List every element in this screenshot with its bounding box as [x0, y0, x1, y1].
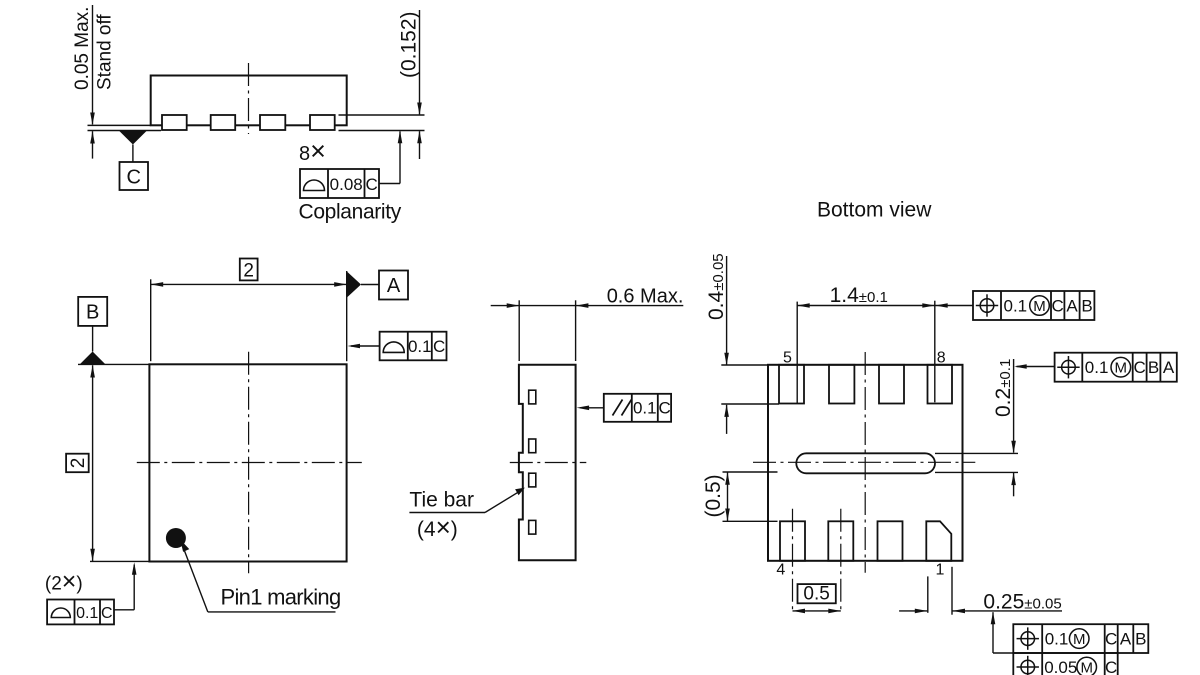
svg-text:0.1: 0.1	[1045, 630, 1069, 649]
seating plane lower line (datum C plane)	[88, 130, 162, 132]
svg-text:C: C	[1105, 658, 1117, 675]
0.6 Max dimension line with arrows	[491, 303, 684, 308]
svg-text:(0.152): (0.152)	[398, 11, 421, 78]
svg-text:B: B	[86, 301, 99, 323]
pin1 marking leader	[180, 540, 335, 612]
pin1 marking dot	[166, 528, 186, 548]
svg-text:B: B	[1081, 297, 1092, 316]
datum B triangle	[80, 352, 105, 365]
0.2 dimension line with arrows	[1011, 359, 1016, 496]
svg-text:C: C	[1105, 630, 1117, 649]
top view vertical centerline	[248, 352, 250, 574]
pad 5 (bottom view top row)	[779, 365, 804, 404]
svg-text:Tie bar: Tie bar	[409, 489, 474, 512]
svg-text:8: 8	[937, 350, 946, 367]
datum B leader	[92, 326, 94, 352]
tie bar leader with arrow	[409, 488, 525, 513]
0.6 Max dimension extension lines	[519, 300, 575, 361]
svg-text:0.1: 0.1	[1004, 297, 1028, 316]
top view horizontal centerline	[137, 462, 362, 464]
tie bar cross-section 1	[529, 390, 536, 404]
svg-text:0.1: 0.1	[1085, 358, 1109, 377]
profile frame bottom-left	[47, 600, 114, 625]
dimension (0.152) line with arrows	[417, 10, 422, 159]
top view package body square	[149, 364, 346, 561]
0.25 dimension extension lines	[928, 567, 952, 615]
svg-text:C: C	[1052, 297, 1064, 316]
pad 4 centerline	[792, 509, 794, 613]
lead pad 1 (side view)	[162, 115, 187, 130]
svg-text:2: 2	[243, 261, 254, 282]
exposed slot rounded rectangle	[796, 453, 935, 473]
svg-text:0.6 Max.: 0.6 Max.	[607, 286, 684, 308]
tie bar cross-section 4	[529, 520, 536, 534]
svg-text:Coplanarity: Coplanarity	[299, 201, 402, 224]
horizontal dimension 2 line with arrows	[151, 282, 347, 287]
svg-text:M: M	[1033, 298, 1046, 315]
0.25 dimension line with arrows	[899, 609, 1062, 614]
svg-text:0.05 Max.: 0.05 Max.	[72, 7, 93, 90]
extension line top edge extended left	[78, 363, 149, 365]
pad 3 (bottom view bottom row)	[828, 521, 853, 561]
leader arrow from frame CBA to 0.2 dimension	[1014, 364, 1054, 369]
boxed dimension 2 (left, rotated)	[66, 454, 89, 473]
lead pad 3 (side view)	[260, 115, 285, 130]
vertical dimension 2 line with arrows	[90, 365, 95, 561]
pad 7 (bottom view top row)	[879, 365, 904, 404]
pad 1 with chamfer (bottom view bottom row)	[926, 521, 951, 561]
svg-text:M: M	[1073, 631, 1086, 648]
coplanarity feature control frame	[300, 169, 379, 198]
svg-text:C: C	[101, 605, 113, 622]
boxed dimension 2 (top)	[240, 259, 258, 282]
position tolerance frame 0.1 M C B A	[1055, 353, 1177, 382]
svg-text:Pin1 marking: Pin1 marking	[221, 585, 341, 610]
datum C box	[120, 162, 149, 190]
pad 4 (bottom view bottom row)	[780, 521, 805, 561]
tie bar cross-section 2	[529, 439, 536, 453]
extension line right / datum A extension	[346, 271, 348, 361]
0.4 dimension extension lines	[721, 365, 779, 404]
profile frame right of top view	[380, 332, 447, 361]
svg-text:A: A	[1163, 358, 1175, 377]
0.2 dimension extension lines	[935, 453, 1018, 472]
position tolerance frame 0.1 M C A B (bottom right)	[1013, 624, 1148, 653]
side view outline with tie-bar steps (middle view)	[519, 365, 576, 560]
svg-text:B: B	[1148, 358, 1159, 377]
svg-text:0.5: 0.5	[803, 584, 829, 605]
extension line pad top right	[339, 114, 425, 116]
svg-text:0.1: 0.1	[408, 337, 432, 356]
pad 2 (bottom view bottom row)	[878, 521, 903, 561]
datum B box	[78, 297, 107, 326]
svg-text:0.1: 0.1	[76, 605, 98, 622]
leader arrow from parallelism frame to right edge	[577, 406, 604, 411]
0.5 pitch dimension line with arrows	[793, 609, 841, 614]
leader from 0.25 dimension to stacked frames	[991, 612, 1014, 653]
svg-text:(0.5): (0.5)	[702, 474, 725, 517]
svg-text:C: C	[126, 167, 140, 189]
1.4 dimension extension lines	[797, 301, 935, 404]
(0.5) dimension line with arrows	[725, 472, 730, 521]
middle view horizontal centerline	[510, 462, 587, 464]
0.4 dimension line with arrows	[724, 256, 729, 434]
leader arrow from profile frame to right edge	[348, 344, 380, 349]
datum A triangle	[347, 272, 379, 298]
position tolerance frame 0.05 M C (bottom right)	[1013, 653, 1117, 675]
tie bar cross-section 3	[529, 473, 536, 487]
svg-text:A: A	[387, 275, 401, 297]
svg-text:Stand off: Stand off	[95, 14, 116, 90]
pad 6 (bottom view top row)	[829, 365, 854, 404]
svg-text:C: C	[433, 337, 445, 356]
svg-text:M: M	[1115, 359, 1128, 376]
stand-off dimension line with arrows	[90, 5, 95, 159]
svg-text:0.1: 0.1	[633, 399, 657, 418]
bottom view horizontal centerline	[753, 461, 975, 463]
lead pad 2 (side view)	[211, 115, 236, 130]
svg-text:M: M	[1080, 659, 1093, 675]
svg-text:B: B	[1135, 630, 1146, 649]
svg-text:1: 1	[936, 562, 945, 579]
datum A box	[379, 271, 408, 300]
svg-text:A: A	[1120, 630, 1132, 649]
1.4 dimension line with arrows	[797, 303, 972, 308]
svg-text:4: 4	[776, 562, 785, 579]
lead pad 4 (side view)	[310, 115, 335, 130]
2x leader arrow	[114, 562, 137, 610]
vertical centerline (side view)	[248, 63, 250, 134]
boxed dimension 0.5	[798, 584, 836, 605]
svg-text:5: 5	[783, 350, 792, 367]
svg-text:C: C	[658, 399, 670, 418]
datum C triangle	[119, 131, 146, 162]
position tolerance frame 0.1 M C A B (top right)	[973, 291, 1094, 320]
parallelism feature control frame	[604, 394, 671, 422]
coplanarity leader arrow	[379, 131, 402, 184]
svg-text:2: 2	[68, 458, 89, 469]
extension line bottom edge extended left	[90, 560, 149, 562]
svg-text:C: C	[366, 175, 378, 194]
(0.5) dimension extension lines	[723, 472, 778, 521]
seating plane upper line	[88, 124, 151, 126]
pad 3 centerline	[840, 509, 842, 613]
bottom view package body square	[768, 365, 963, 561]
pad 8 (bottom view top row)	[928, 365, 953, 404]
svg-text:0.08: 0.08	[330, 175, 363, 194]
svg-text:0.05: 0.05	[1044, 658, 1077, 675]
extension line pad bottom right	[339, 130, 425, 132]
extension line top-left of dimension 2	[150, 279, 152, 361]
svg-text:A: A	[1066, 297, 1078, 316]
side view body outline (top-left view)	[151, 76, 347, 126]
svg-text:C: C	[1134, 358, 1146, 377]
svg-text:Bottom view: Bottom view	[817, 199, 932, 222]
bottom view vertical centerline	[864, 352, 866, 573]
